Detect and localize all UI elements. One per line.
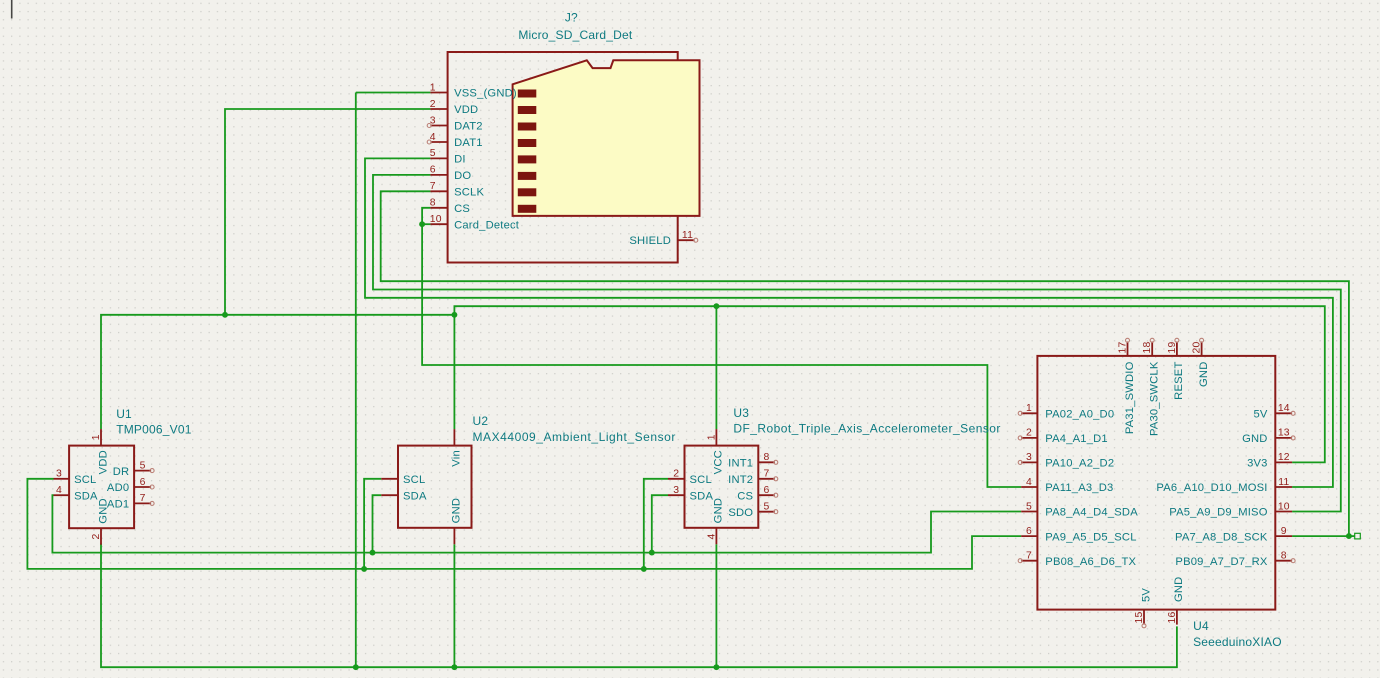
svg-text:16: 16 [1167, 612, 1178, 624]
svg-text:GND: GND [1198, 362, 1210, 387]
svg-text:VDD: VDD [97, 450, 109, 474]
svg-text:6: 6 [140, 477, 146, 488]
svg-text:DAT1: DAT1 [454, 137, 483, 149]
svg-text:11: 11 [682, 230, 693, 241]
svg-text:8: 8 [764, 452, 770, 463]
svg-text:1: 1 [706, 434, 717, 440]
svg-text:SeeeduinoXIAO: SeeeduinoXIAO [1193, 635, 1282, 649]
svg-text:PA7_A8_D8_SCK: PA7_A8_D8_SCK [1175, 531, 1268, 543]
svg-text:SDA: SDA [690, 490, 714, 502]
svg-text:3V3: 3V3 [1247, 458, 1268, 470]
svg-text:U1: U1 [116, 407, 132, 421]
svg-text:PA5_A9_D9_MISO: PA5_A9_D9_MISO [1169, 507, 1267, 519]
svg-text:J?: J? [565, 10, 578, 24]
svg-text:6: 6 [764, 485, 770, 496]
svg-text:SDA: SDA [403, 490, 427, 502]
svg-text:8: 8 [430, 198, 436, 209]
svg-text:GND: GND [451, 498, 463, 523]
svg-text:7: 7 [430, 181, 436, 192]
svg-text:5: 5 [764, 502, 770, 513]
svg-text:2: 2 [91, 533, 102, 539]
svg-text:PA31_SWDIO: PA31_SWDIO [1124, 361, 1136, 434]
svg-text:Card_Detect: Card_Detect [454, 219, 520, 231]
svg-text:VCC: VCC [713, 450, 725, 474]
svg-text:PB09_A7_D7_RX: PB09_A7_D7_RX [1175, 556, 1267, 568]
svg-text:INT1: INT1 [728, 458, 753, 470]
svg-text:PA6_A10_D10_MOSI: PA6_A10_D10_MOSI [1156, 482, 1267, 494]
svg-text:DO: DO [454, 170, 471, 182]
svg-text:DAT2: DAT2 [454, 121, 483, 133]
svg-text:SDO: SDO [728, 507, 753, 519]
svg-text:2: 2 [673, 469, 679, 480]
svg-text:5V: 5V [1254, 409, 1268, 421]
svg-text:GND: GND [713, 498, 725, 523]
svg-text:INT2: INT2 [728, 474, 753, 486]
svg-text:SCL: SCL [690, 474, 712, 486]
svg-text:18: 18 [1142, 342, 1153, 354]
svg-text:SCLK: SCLK [454, 187, 484, 199]
svg-text:MAX44009_Ambient_Light_Sensor: MAX44009_Ambient_Light_Sensor [473, 430, 676, 444]
svg-text:2: 2 [1026, 428, 1032, 439]
svg-text:4: 4 [706, 533, 717, 539]
svg-text:20: 20 [1192, 342, 1203, 354]
svg-text:U4: U4 [1193, 619, 1209, 633]
svg-text:5: 5 [140, 460, 146, 471]
svg-text:2: 2 [430, 99, 436, 110]
svg-text:1: 1 [430, 82, 436, 93]
svg-text:11: 11 [1278, 477, 1289, 488]
svg-text:13: 13 [1278, 428, 1290, 439]
svg-text:VSS_(GND): VSS_(GND) [454, 88, 517, 100]
svg-text:PA8_A4_D4_SDA: PA8_A4_D4_SDA [1045, 507, 1138, 519]
svg-text:CS: CS [454, 203, 470, 215]
svg-text:3: 3 [673, 485, 679, 496]
svg-text:PA10_A2_D2: PA10_A2_D2 [1045, 458, 1114, 470]
svg-text:AD1: AD1 [107, 499, 129, 511]
svg-text:8: 8 [1281, 551, 1287, 562]
svg-text:12: 12 [1278, 452, 1290, 463]
svg-text:PA30_SWCLK: PA30_SWCLK [1149, 361, 1161, 436]
svg-text:15: 15 [1134, 612, 1145, 624]
svg-text:AD0: AD0 [107, 482, 129, 494]
svg-text:4: 4 [1026, 477, 1032, 488]
svg-text:6: 6 [430, 165, 436, 176]
svg-text:SDA: SDA [74, 490, 98, 502]
svg-text:PB08_A6_D6_TX: PB08_A6_D6_TX [1045, 556, 1136, 568]
svg-text:SHIELD: SHIELD [629, 235, 671, 247]
svg-text:7: 7 [1026, 551, 1032, 562]
svg-text:Vin: Vin [451, 450, 463, 467]
svg-text:4: 4 [56, 485, 62, 496]
svg-text:DR: DR [113, 466, 130, 478]
svg-text:5: 5 [1026, 501, 1032, 512]
svg-text:TMP006_V01: TMP006_V01 [116, 422, 192, 436]
svg-text:1: 1 [91, 434, 102, 440]
svg-text:SCL: SCL [403, 474, 425, 486]
svg-text:Micro_SD_Card_Det: Micro_SD_Card_Det [518, 28, 633, 42]
svg-text:3: 3 [1026, 452, 1032, 463]
svg-text:7: 7 [140, 493, 146, 504]
svg-text:PA4_A1_D1: PA4_A1_D1 [1045, 433, 1108, 445]
svg-text:U2: U2 [473, 414, 489, 428]
svg-text:DF_Robot_Triple_Axis_Accelerom: DF_Robot_Triple_Axis_Accelerometer_Senso… [733, 422, 1000, 436]
svg-text:PA11_A3_D3: PA11_A3_D3 [1045, 482, 1113, 494]
svg-text:SCL: SCL [74, 474, 96, 486]
svg-text:VDD: VDD [454, 104, 478, 116]
svg-text:GND: GND [1173, 577, 1185, 602]
svg-text:CS: CS [737, 490, 753, 502]
svg-text:RESET: RESET [1173, 362, 1185, 400]
svg-text:1: 1 [1026, 403, 1032, 414]
svg-text:19: 19 [1167, 342, 1178, 354]
svg-text:U3: U3 [733, 406, 749, 420]
svg-text:DI: DI [454, 154, 466, 166]
svg-text:PA02_A0_D0: PA02_A0_D0 [1045, 409, 1114, 421]
svg-text:GND: GND [1242, 433, 1267, 445]
svg-text:17: 17 [1118, 342, 1129, 354]
svg-text:3: 3 [56, 469, 62, 480]
svg-text:10: 10 [430, 214, 442, 225]
svg-text:9: 9 [1281, 526, 1287, 537]
svg-text:5V: 5V [1140, 588, 1152, 602]
svg-text:6: 6 [1026, 526, 1032, 537]
svg-text:10: 10 [1278, 501, 1290, 512]
svg-text:7: 7 [764, 469, 770, 480]
svg-text:PA9_A5_D5_SCL: PA9_A5_D5_SCL [1045, 531, 1136, 543]
svg-text:5: 5 [430, 148, 436, 159]
svg-text:14: 14 [1278, 403, 1290, 414]
